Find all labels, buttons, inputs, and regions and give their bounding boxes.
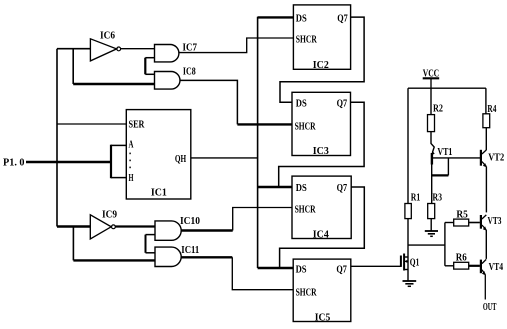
svg-text:IC2: IC2 — [313, 60, 329, 71]
svg-text:IC11: IC11 — [181, 245, 199, 256]
svg-text:IC6: IC6 — [100, 31, 115, 42]
svg-text:SHCR: SHCR — [295, 122, 317, 133]
svg-text:IC4: IC4 — [313, 230, 329, 241]
svg-text:VT4: VT4 — [489, 262, 504, 273]
svg-text:Q7: Q7 — [336, 265, 347, 276]
svg-text:SHCR: SHCR — [296, 34, 318, 45]
svg-text:VT3: VT3 — [488, 216, 502, 227]
svg-text:OUT: OUT — [483, 302, 497, 313]
svg-text:Q7: Q7 — [337, 14, 348, 25]
svg-text:QH: QH — [175, 154, 186, 165]
svg-text:DS: DS — [296, 14, 307, 25]
svg-text:R2: R2 — [433, 104, 443, 115]
svg-text:A: A — [129, 140, 135, 151]
svg-text:IC10: IC10 — [180, 216, 200, 227]
svg-text:DS: DS — [296, 99, 307, 110]
svg-text:DS: DS — [296, 265, 307, 276]
svg-text:IC3: IC3 — [313, 146, 329, 157]
svg-text:VT2: VT2 — [488, 152, 504, 163]
svg-text:IC7: IC7 — [183, 43, 198, 54]
svg-text:IC1: IC1 — [151, 188, 167, 199]
svg-text:R1: R1 — [411, 193, 421, 204]
svg-text:R4: R4 — [487, 104, 496, 115]
svg-text:Q7: Q7 — [337, 99, 348, 110]
svg-text:Q1: Q1 — [410, 257, 420, 268]
svg-text:R6: R6 — [456, 252, 467, 263]
svg-text:VCC: VCC — [423, 68, 440, 79]
svg-text:IC8: IC8 — [183, 66, 196, 77]
svg-text:H: H — [129, 173, 134, 184]
svg-text:DS: DS — [296, 183, 307, 194]
svg-text:R3: R3 — [433, 193, 443, 204]
svg-text:VT1: VT1 — [437, 147, 452, 158]
svg-text:IC9: IC9 — [102, 209, 117, 220]
svg-text:SHCR: SHCR — [296, 287, 318, 298]
svg-text:Q7: Q7 — [337, 183, 348, 194]
svg-text:P1. 0: P1. 0 — [3, 158, 25, 169]
svg-text:R5: R5 — [456, 210, 468, 221]
svg-text:SHCR: SHCR — [295, 204, 317, 215]
svg-text:SER: SER — [129, 120, 146, 131]
svg-text:IC5: IC5 — [315, 313, 331, 324]
